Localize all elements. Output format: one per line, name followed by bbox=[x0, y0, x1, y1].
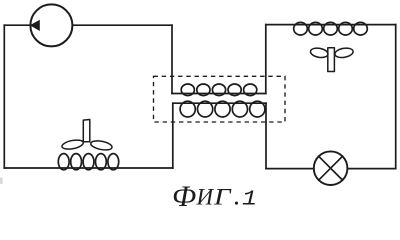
svg-text:Г: Г bbox=[213, 184, 232, 209]
svg-text:1: 1 bbox=[242, 187, 257, 210]
svg-text:Ф: Ф bbox=[172, 180, 196, 210]
svg-text:И: И bbox=[196, 184, 215, 209]
svg-text:.: . bbox=[234, 180, 241, 210]
